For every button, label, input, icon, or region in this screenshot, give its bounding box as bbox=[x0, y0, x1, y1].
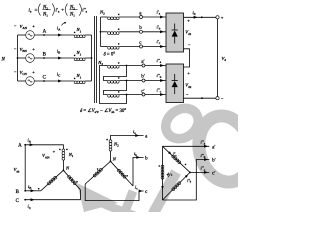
winding N2 delta phase c bbox=[108, 91, 166, 97]
watermark slash stroke bbox=[148, 169, 181, 216]
ac source V_BN bbox=[14, 47, 36, 63]
current arrow i''_c2 bbox=[204, 171, 208, 174]
wire V_ab left side bbox=[24, 145, 26, 191]
equation i_a = (N2/N1) i'_a + (N2/N1) i''_a bbox=[29, 4, 88, 18]
node N2 center bbox=[63, 169, 65, 171]
node a' bbox=[142, 64, 145, 67]
wire delta link a-b bbox=[104, 66, 127, 81]
winding N2 wye phase b bbox=[101, 28, 167, 34]
current arrow on lower diagonal bbox=[185, 175, 188, 178]
wire c'2 output bbox=[190, 171, 209, 173]
junction top output bbox=[201, 16, 203, 18]
winding N1 phase B bbox=[74, 50, 92, 60]
current arrow i''_a bbox=[160, 64, 164, 67]
svg-text:N1: N1 bbox=[42, 13, 48, 18]
node c' bbox=[142, 93, 145, 96]
watermark arrowhead of digit 4 bbox=[77, 183, 118, 212]
winding N2 phase c diagonal left bbox=[85, 161, 110, 184]
svg-text:=: = bbox=[35, 7, 38, 13]
current arrow on left winding bbox=[161, 186, 164, 189]
svg-text:+: + bbox=[187, 70, 190, 75]
terminal - bbox=[216, 97, 219, 100]
winding N1 phase B diagonal bbox=[38, 170, 64, 191]
wire a'2 top edge bbox=[163, 145, 210, 147]
node N3 center bbox=[110, 160, 112, 162]
wire wye secondary rail bbox=[100, 17, 102, 47]
diode bridge 1 bbox=[172, 24, 178, 44]
node B bbox=[43, 57, 45, 59]
node C bbox=[43, 80, 45, 82]
winding N2 phase a vertical bbox=[106, 139, 112, 162]
current arrow i_c2 bbox=[139, 190, 143, 193]
current arrow i''_b bbox=[160, 79, 164, 82]
winding N1 phase A vertical bbox=[59, 149, 68, 171]
wire dc output top bbox=[184, 16, 217, 18]
wire dc output bottom bbox=[184, 97, 217, 99]
svg-text:c′: c′ bbox=[141, 89, 144, 94]
watermark short stem stroke bbox=[120, 189, 137, 216]
terminal + bbox=[216, 16, 219, 19]
wire b'2 bottom edge and riser bbox=[163, 160, 210, 201]
svg-text:N: N bbox=[1, 57, 6, 62]
wire series link between bridges bbox=[184, 49, 190, 67]
wire phase B bbox=[34, 57, 74, 59]
winding N2 wye phase a bbox=[99, 10, 166, 20]
wire delta closing left side bbox=[100, 66, 127, 104]
junction delta row a bbox=[126, 65, 128, 67]
rectifier bridge 2 bbox=[166, 64, 184, 103]
svg-text:b′: b′ bbox=[212, 159, 216, 164]
wire neutral rail left bbox=[17, 35, 19, 81]
winding N2 phase b diagonal right bbox=[111, 161, 134, 186]
svg-text:+: + bbox=[221, 15, 224, 20]
current arrow i''_c bbox=[160, 93, 164, 96]
svg-text:δ = ∠Va′b′ − ∠Vab = 30°: δ = ∠Va′b′ − ∠Vab = 30° bbox=[80, 108, 126, 114]
wire phase A bbox=[34, 34, 74, 36]
svg-text:+: + bbox=[32, 70, 35, 75]
ac source V_AN bbox=[14, 24, 36, 40]
junction bottom output bbox=[201, 97, 203, 99]
svg-text:−: − bbox=[14, 47, 17, 52]
svg-text:A: A bbox=[43, 29, 47, 34]
node a bbox=[140, 16, 143, 19]
wire A2 top bbox=[25, 145, 63, 149]
junction N bbox=[17, 57, 19, 59]
svg-text:+: + bbox=[187, 18, 190, 23]
svg-text:+: + bbox=[32, 24, 35, 29]
rectifier bridge 1 bbox=[166, 13, 184, 52]
current arrow i'_a bbox=[160, 16, 164, 19]
winding N2 delta lower diagonal bbox=[163, 172, 191, 200]
current arrow i_C2 bbox=[31, 198, 35, 201]
junction wye secondary bbox=[100, 31, 102, 33]
svg-text:i′a: i′a bbox=[56, 9, 60, 14]
svg-text:A: A bbox=[18, 144, 22, 149]
current arrow i_a2 bbox=[135, 134, 139, 137]
winding N1 phase C diagonal bbox=[63, 170, 80, 190]
current arrow i''_b2 bbox=[204, 158, 208, 161]
winding N2 wye phase c bbox=[101, 43, 167, 49]
winding N2 delta upper diagonal bbox=[163, 146, 191, 172]
current arrow i_A bbox=[58, 34, 62, 37]
node A bbox=[43, 34, 45, 36]
wire phase C bbox=[34, 80, 74, 82]
watermark ring upper-left of big 8 bbox=[160, 102, 204, 145]
svg-text:+: + bbox=[32, 47, 35, 52]
winding N2 delta phase b bbox=[108, 77, 166, 83]
transformer core bbox=[94, 16, 96, 103]
watermark ring lower-right of big 8 bbox=[192, 110, 259, 188]
svg-text:−: − bbox=[188, 43, 191, 48]
node b bbox=[140, 30, 143, 33]
current arrow i_A2 bbox=[30, 143, 34, 146]
current arrow on upper diagonal bbox=[168, 151, 171, 154]
junction delta right vertex bbox=[189, 172, 191, 174]
current arrow i_C bbox=[58, 80, 62, 83]
svg-text:−: − bbox=[221, 96, 224, 101]
svg-text:b′: b′ bbox=[141, 75, 145, 80]
winding N1 phase C bbox=[74, 73, 92, 84]
node c bbox=[140, 45, 143, 48]
svg-text:N1: N1 bbox=[69, 13, 75, 18]
node b' bbox=[142, 79, 145, 82]
current arrow i'_c bbox=[160, 45, 164, 48]
current arrow i'_b bbox=[160, 30, 164, 33]
wire primary neutral rail bbox=[91, 35, 93, 81]
junction delta row c bbox=[126, 94, 128, 96]
wire c2 bottom route bbox=[85, 184, 143, 201]
svg-text:+: + bbox=[61, 7, 64, 13]
wire B2 bbox=[25, 190, 41, 192]
wire delta link b-c bbox=[104, 81, 127, 95]
current arrow i''_a2 bbox=[204, 145, 208, 148]
junction delta row b bbox=[126, 80, 128, 82]
wire a2 top bbox=[111, 136, 144, 140]
junction primary neutral bbox=[91, 57, 93, 59]
watermark shaft of digit 4 bbox=[98, 200, 137, 212]
svg-text:δ = 0°: δ = 0° bbox=[104, 53, 116, 58]
svg-text:c′: c′ bbox=[212, 172, 215, 177]
svg-text:−: − bbox=[14, 70, 17, 75]
svg-text:i″a: i″a bbox=[82, 9, 87, 14]
winding N2 delta left vertical bbox=[158, 146, 164, 200]
winding N2 delta phase a bbox=[97, 60, 166, 68]
svg-text:a′: a′ bbox=[141, 60, 144, 65]
svg-text:−: − bbox=[14, 24, 17, 29]
current arrow i_B bbox=[58, 57, 62, 60]
curved reference arrow above i_A bbox=[62, 22, 66, 25]
current arrow i_d bbox=[194, 16, 198, 19]
wire b2 riser bbox=[133, 157, 144, 186]
current arrow i_B2 bbox=[31, 189, 35, 192]
wire C2 bbox=[25, 190, 80, 200]
current arrow i_b2 bbox=[136, 156, 140, 159]
svg-text:−: − bbox=[186, 92, 189, 97]
wire dc rail right bbox=[217, 19, 219, 97]
ac source V_CN bbox=[14, 70, 36, 86]
winding N1 phase A bbox=[74, 27, 92, 37]
diode bridge 2 bbox=[172, 74, 178, 94]
svg-text:a′: a′ bbox=[212, 145, 215, 150]
